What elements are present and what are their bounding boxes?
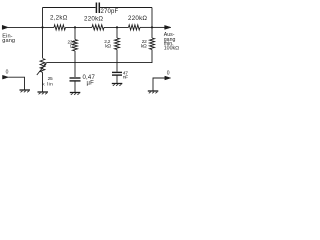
capacitor C3 47nF — [112, 72, 122, 75]
svg-text:0: 0 — [6, 70, 9, 76]
potentiometer P1 25k lin zigzag — [40, 59, 45, 73]
ground symbol C3 — [112, 84, 123, 86]
svg-text:220kΩ: 220kΩ — [84, 16, 103, 23]
wire between R3 and output node — [140, 26, 152, 28]
resistor R2 220k horizontal zigzag — [92, 25, 104, 30]
ground symbol left terminal — [20, 90, 31, 92]
svg-text:0: 0 — [167, 71, 170, 77]
right zero terminal arrow — [165, 76, 171, 80]
ground symbol potentiometer — [38, 92, 49, 94]
svg-text:nF: nF — [123, 75, 128, 81]
resistor R4 220ohm vertical zigzag — [73, 40, 78, 52]
wire left zero terminal — [8, 77, 24, 89]
svg-text:µF: µF — [87, 81, 95, 87]
wire right vertical top rail to output node — [151, 8, 153, 39]
svg-text:25: 25 — [48, 76, 53, 82]
wire 22k bottom to wiper rail corner — [46, 50, 152, 63]
resistor R3 220k horizontal zigzag — [129, 25, 141, 30]
junction node dot at output — [151, 26, 153, 28]
resistor R1 2,2k horizontal zigzag — [54, 25, 66, 30]
svg-text:gang: gang — [2, 38, 15, 44]
wire right zero terminal — [153, 78, 166, 91]
wire pot bottom to ground — [42, 72, 44, 91]
input arrow Eingang — [2, 25, 8, 29]
svg-text:100kΩ: 100kΩ — [164, 46, 179, 52]
svg-text:kΩ: kΩ — [141, 43, 147, 49]
svg-text:2,2kΩ: 2,2kΩ — [50, 15, 68, 22]
junction node dot at 2,2k branch — [116, 26, 118, 28]
wire top rail right segment — [100, 7, 152, 9]
resistor R6 22k vertical zigzag — [150, 38, 155, 50]
wire cap C3 to ground — [116, 75, 118, 83]
capacitor C1 270pF — [96, 3, 99, 14]
wire output line — [152, 26, 166, 28]
wire top rail left segment — [43, 7, 96, 9]
svg-text:270pF: 270pF — [101, 9, 119, 15]
junction node dot at 220ohm branch — [74, 26, 76, 28]
ground symbol C2 — [70, 93, 81, 95]
wire branch 2,2k top — [116, 27, 118, 38]
potentiometer wiper diagonal arrow — [37, 65, 45, 75]
resistor R5 2,2k vertical zigzag — [115, 38, 120, 50]
svg-text:kΩ: kΩ — [105, 43, 111, 49]
wire input line — [8, 26, 54, 28]
junction node dot at input/pot — [41, 26, 43, 28]
ground symbol right terminal — [148, 91, 159, 93]
capacitor C2 0,47uF — [70, 78, 81, 81]
svg-text:Ω: Ω — [70, 43, 74, 49]
wire branch 220ohm top — [74, 27, 76, 39]
svg-text:220kΩ: 220kΩ — [128, 15, 147, 22]
wire cap C2 to ground — [74, 81, 76, 92]
wire branch 220ohm bottom to cap — [74, 51, 76, 77]
potentiometer wiper arrowhead — [44, 62, 47, 65]
wire branch 2,2k bottom to cap — [116, 50, 118, 72]
left zero terminal arrow — [3, 75, 9, 79]
output arrow Ausgang — [165, 25, 171, 29]
svg-text:k lin: k lin — [42, 82, 53, 88]
wire left vertical from top rail to potentiometer — [42, 8, 44, 59]
wire between R2 and R3 — [104, 26, 129, 28]
wire between R1 and R2 — [66, 26, 93, 28]
